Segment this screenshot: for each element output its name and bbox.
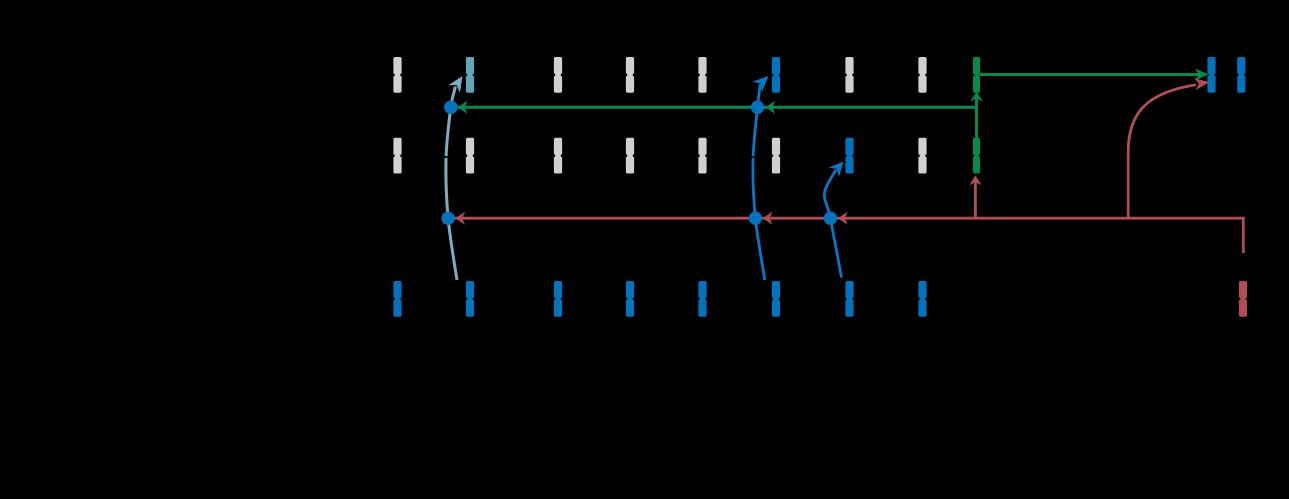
blue curve token6 up to row1 col6 [753, 84, 765, 280]
input token bar col7 (blue) [844, 281, 855, 317]
blue curve token7 up to row2 col7 [824, 170, 841, 278]
green top horizontal arrow shaft y=74.5 [979, 73, 1199, 76]
output bar row1 right A (blue) [1206, 57, 1217, 93]
green arrowhead right into output bar A [1195, 69, 1209, 81]
green arrowhead into node dot2-green [766, 101, 776, 114]
cache slot row1 col7 (gray) [844, 57, 855, 93]
red arrowhead into node dot2-red [763, 212, 773, 225]
node dot1-red [441, 212, 454, 225]
input token bar col6 (blue) [771, 281, 782, 317]
cache slot row1 col9 (green) [972, 57, 982, 93]
cache slot row1 col8 (gray) [917, 57, 928, 93]
red main horizontal line y=218.2 [448, 218, 1243, 253]
input token bar col8 (blue) [917, 281, 928, 317]
steel-blue arrowhead up-right into teal bar [448, 76, 462, 93]
input token bar col1 (blue) [392, 281, 403, 317]
node dot2-red [749, 212, 762, 225]
green arrowhead into node dot1-green [458, 101, 468, 114]
green vertical arrow shaft x=976.5 [975, 99, 978, 138]
red arrowhead into node dot3-red [838, 212, 848, 225]
red curve from red line up-right to output bar A [1128, 85, 1196, 218]
input token bar col4 (blue) [625, 281, 636, 317]
cache slot row2 col6 (gray) [771, 138, 782, 174]
node dot1-green [444, 101, 457, 114]
node dot2-green [751, 101, 764, 114]
blue arrowhead up-right into row2 blue bar [829, 162, 844, 178]
cache slot row2 col7 (blue) [844, 138, 855, 174]
input token bar col3 (blue) [553, 281, 564, 317]
blue arrowhead up-right into row1 blue bar [752, 76, 768, 92]
cache slot row1 col6 (blue) [771, 57, 782, 93]
cache slot row1 col1 (gray) [392, 57, 403, 93]
steel-blue curve token1 up to row1 col2 [446, 87, 457, 281]
cache slot row2 col9 (green) [972, 138, 982, 174]
black separator pinch on steel curve y=157 [443, 156, 448, 158]
red vertical arrow shaft x=975.4 [974, 182, 977, 218]
red arrowhead up into row2 green bar [969, 175, 981, 185]
cache slot row2 col1 (gray) [392, 138, 403, 174]
cache slot row2 col5 (gray) [697, 138, 708, 174]
red arrowhead into node dot1-red [455, 212, 465, 225]
input token bar far right (red) [1238, 281, 1249, 317]
cache slot row2 col2 (gray) [465, 138, 476, 174]
cache slot row2 col8 (gray) [917, 138, 928, 174]
node dot3-red [824, 212, 837, 225]
green main horizontal line y=107.3 [451, 106, 977, 109]
red arrowhead right into output bar A [1194, 78, 1210, 90]
cache slot row1 col4 (gray) [625, 57, 636, 93]
cache slot row1 col2 (teal) [465, 57, 476, 93]
black separator pinch on blue curve y=157 [750, 156, 755, 158]
input token bar col5 (blue) [697, 281, 708, 317]
cache slot row2 col3 (gray) [553, 138, 564, 174]
cache slot row1 col5 (gray) [697, 57, 708, 93]
input token bar col2 (blue) [465, 281, 476, 317]
green arrowhead up into row1 green bar [970, 92, 982, 102]
output bar row1 right B (blue) [1236, 57, 1247, 93]
cache slot row2 col4 (gray) [625, 138, 636, 174]
cache slot row1 col3 (gray) [553, 57, 564, 93]
